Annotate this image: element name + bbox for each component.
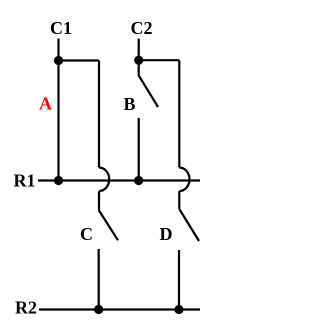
node C1: [54, 56, 63, 65]
wire B fixed terminal: [138, 118, 140, 181]
hop (wire jumps over R1) right: [179, 168, 189, 192]
wire D fixed terminal: [178, 250, 180, 310]
wire left hop column upper: [98, 61, 100, 168]
svg-text:C2: C2: [131, 18, 153, 38]
svg-text:A: A: [39, 94, 52, 114]
wire A branch (C1 node to R1): [57, 61, 59, 181]
junction dot R1 left: [54, 176, 63, 185]
svg-text:C1: C1: [50, 18, 72, 38]
svg-text:R2: R2: [15, 298, 37, 318]
svg-text:R1: R1: [14, 171, 36, 191]
rail R2: [39, 308, 200, 310]
wire C2 stub: [138, 39, 140, 61]
switch B blade: [139, 60, 158, 107]
wire C1 stub: [57, 39, 59, 61]
hop (wire jumps over R1) left: [99, 168, 109, 192]
svg-text:C: C: [80, 224, 93, 244]
svg-text:D: D: [160, 224, 173, 244]
svg-text:B: B: [124, 94, 136, 114]
junction dot R2 left: [94, 305, 103, 314]
node C2: [134, 56, 143, 65]
junction dot R1 middle: [134, 176, 143, 185]
wire C fixed terminal: [98, 249, 100, 310]
wire below right hop: [178, 191, 180, 209]
wire C2 to right hop column (horizontal): [139, 59, 180, 61]
wire right hop column upper: [178, 60, 180, 167]
junction dot R2 right: [174, 305, 183, 314]
wire C1 to left hop column (horizontal): [59, 59, 100, 61]
wire below left hop: [98, 191, 100, 210]
rail R1: [38, 179, 200, 181]
switch C blade: [99, 211, 118, 241]
switch D blade: [179, 209, 199, 241]
